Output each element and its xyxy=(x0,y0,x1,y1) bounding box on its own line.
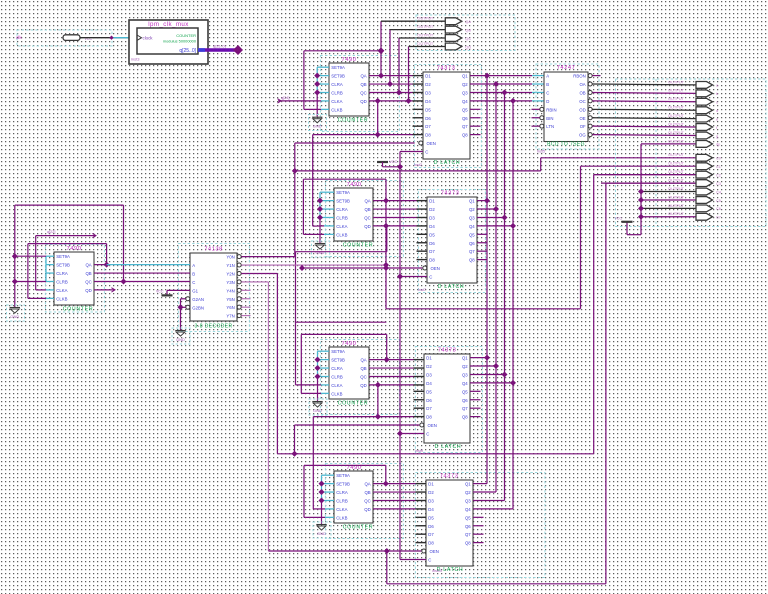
wire QB2-D2 xyxy=(373,208,417,210)
node riser-QA junction xyxy=(378,47,385,54)
svg-text:Y5N: Y5N xyxy=(226,297,234,302)
svg-text:CLKB: CLKB xyxy=(331,391,342,396)
svg-text:CLRB: CLRB xyxy=(56,279,68,284)
svg-text:7490: 7490 xyxy=(67,246,82,252)
svg-text:CLKA: CLKA xyxy=(331,99,342,104)
svg-text:CLRB: CLRB xyxy=(331,374,343,379)
output pin C2 xyxy=(696,171,713,178)
svg-text:inst7: inst7 xyxy=(418,288,426,292)
svg-text:QC: QC xyxy=(364,498,370,503)
svg-text:74373: 74373 xyxy=(438,347,457,353)
wire Y3N net: OEN4 + C3 xyxy=(241,281,268,283)
svg-text:CLRB: CLRB xyxy=(336,498,348,503)
svg-text:QB: QB xyxy=(364,490,370,495)
svg-text:CLRA: CLRA xyxy=(336,207,348,212)
svg-text:Q6: Q6 xyxy=(469,241,475,246)
wire clk to lpm xyxy=(80,37,129,39)
wire SET9A/CLRB to gnd U9 xyxy=(15,255,46,257)
svg-text:OUTPUT: OUTPUT xyxy=(668,138,685,143)
svg-text:QD: QD xyxy=(364,224,370,229)
svg-text:D6: D6 xyxy=(426,398,432,403)
svg-text:Q4: Q4 xyxy=(462,381,468,386)
wire QB5-B xyxy=(94,272,190,274)
svg-text:7490: 7490 xyxy=(342,57,357,63)
svg-text:inst3: inst3 xyxy=(131,57,140,62)
ground xyxy=(312,401,322,403)
svg-text:OA: OA xyxy=(579,82,585,87)
svg-text:D3: D3 xyxy=(428,498,434,503)
svg-text:Q8: Q8 xyxy=(465,541,471,546)
svg-text:RBIN: RBIN xyxy=(546,107,556,112)
svg-text:QA: QA xyxy=(364,482,370,487)
wire RBIN/BIN/LTN stubs xyxy=(532,108,540,110)
svg-text:OG: OG xyxy=(579,133,586,138)
output pin d xyxy=(696,107,713,114)
svg-text:Q1: Q1 xyxy=(465,482,471,487)
svg-text:modulus 50000000: modulus 50000000 xyxy=(163,38,197,43)
svg-text:OUTPUT: OUTPUT xyxy=(668,79,685,84)
svg-text:D2: D2 xyxy=(426,364,432,369)
svg-text:D8: D8 xyxy=(426,415,432,420)
svg-text:D5: D5 xyxy=(426,389,432,394)
svg-text:q[22]: q[22] xyxy=(47,230,55,234)
svg-text:SET9A: SET9A xyxy=(331,65,345,70)
svg-text:Q1: Q1 xyxy=(462,74,468,79)
svg-text:inst10: inst10 xyxy=(432,569,442,573)
svg-text:OB: OB xyxy=(579,90,585,95)
svg-text:OF: OF xyxy=(580,124,586,129)
svg-text:OEN: OEN xyxy=(431,266,440,271)
svg-text:D6: D6 xyxy=(425,116,431,121)
svg-text:SET9A: SET9A xyxy=(331,349,345,354)
bus wire q[25..0] xyxy=(198,48,236,52)
output pin QC xyxy=(445,35,462,42)
svg-text:Q5: Q5 xyxy=(462,389,468,394)
vcc xyxy=(162,294,173,296)
decoder U11 74247 BCD to 7seg xyxy=(536,64,599,149)
output pin e xyxy=(696,115,713,122)
svg-text:COUNTER: COUNTER xyxy=(338,117,369,123)
svg-text:D5: D5 xyxy=(428,515,434,520)
svg-text:Q7: Q7 xyxy=(469,249,475,254)
output pin C1 xyxy=(696,163,713,170)
svg-text:Q8: Q8 xyxy=(462,133,468,138)
wires OA-OG to pins a-g xyxy=(592,83,696,86)
wire QD2-D4 xyxy=(373,225,417,227)
svg-text:A: A xyxy=(192,263,195,268)
svg-text:CLKA: CLKA xyxy=(56,288,67,293)
svg-text:SET9B: SET9B xyxy=(331,358,345,363)
svg-text:inst2: inst2 xyxy=(414,163,422,167)
svg-text:D5: D5 xyxy=(429,232,435,237)
svg-text:CLKB: CLKB xyxy=(336,232,347,237)
svg-text:C1: C1 xyxy=(716,164,721,169)
wire CLKA3 feed (cascade from QD2) xyxy=(296,384,322,386)
svg-text:Q3: Q3 xyxy=(462,90,468,95)
wire trunk VA x386 xyxy=(385,179,387,309)
wire Q5-Q8 stubs xyxy=(470,108,481,110)
svg-text:CLKB: CLKB xyxy=(56,296,67,301)
output pin dp xyxy=(696,141,713,148)
svg-text:COUNTER: COUNTER xyxy=(63,306,94,312)
svg-text:Q5: Q5 xyxy=(469,232,475,237)
wire q[24] to CLKA U1 xyxy=(278,99,282,103)
svg-text:OUTPUT: OUTPUT xyxy=(668,130,685,135)
vcc to G1 xyxy=(167,289,190,291)
svg-text:C4: C4 xyxy=(716,189,722,194)
svg-text:CLKA: CLKA xyxy=(336,507,347,512)
svg-text:D1: D1 xyxy=(426,356,432,361)
svg-text:q[25..0]: q[25..0] xyxy=(179,48,196,54)
svg-text:Q8: Q8 xyxy=(462,415,468,420)
svg-text:D3: D3 xyxy=(426,372,432,377)
wire chain CLKB-QA U9 xyxy=(28,297,46,299)
svg-text:QD: QD xyxy=(360,99,366,104)
svg-text:D LATCH: D LATCH xyxy=(435,444,462,450)
svg-text:74373: 74373 xyxy=(441,190,460,196)
wire q[22] label stub to CLKA U9 xyxy=(36,235,96,237)
svg-text:C: C xyxy=(192,280,195,285)
svg-text:OUTPUT: OUTPUT xyxy=(668,177,685,182)
svg-text:D5: D5 xyxy=(425,107,431,112)
wire set/clr bus U3 xyxy=(319,192,321,217)
svg-text:VCC: VCC xyxy=(615,217,623,221)
svg-text:QA: QA xyxy=(465,19,471,24)
svg-text:QD: QD xyxy=(465,44,471,49)
wire Y0N net: OEN1 + C0 xyxy=(241,256,294,258)
svg-text:OD: OD xyxy=(579,107,585,112)
wire RBON stub xyxy=(592,75,600,77)
svg-text:C: C xyxy=(546,90,549,95)
svg-text:C: C xyxy=(429,274,432,279)
svg-text:BCD TO 7SEG: BCD TO 7SEG xyxy=(547,142,585,148)
output pin f xyxy=(696,124,713,131)
svg-text:Q3: Q3 xyxy=(469,215,475,220)
wire cascade QD3 to D8/CLKA4 xyxy=(377,385,379,417)
svg-text:G1: G1 xyxy=(192,288,198,293)
svg-text:OUTPUT: OUTPUT xyxy=(668,186,685,191)
svg-text:SET9A: SET9A xyxy=(56,254,70,259)
latch U6 74373 xyxy=(415,347,482,453)
node bus end xyxy=(233,45,243,55)
wire set/clr stubs U9 xyxy=(46,255,54,257)
svg-text:QD: QD xyxy=(364,507,370,512)
counter U1 7490 xyxy=(320,56,399,132)
svg-text:clk: clk xyxy=(16,35,22,40)
svg-text:OUTPUT: OUTPUT xyxy=(668,152,685,157)
lpm_clk_mux block U0 xyxy=(129,20,208,64)
svg-text:QB: QB xyxy=(360,82,366,87)
svg-text:C0: C0 xyxy=(716,156,722,161)
wire Y2N net: OEN3 + C2 xyxy=(241,272,277,274)
svg-text:d: d xyxy=(716,108,718,113)
svg-text:QB: QB xyxy=(364,207,370,212)
svg-text:Y7N: Y7N xyxy=(226,314,234,319)
wire upper loop to QC junction xyxy=(15,204,124,206)
svg-text:D7: D7 xyxy=(426,406,432,411)
svg-text:clock: clock xyxy=(143,36,154,41)
svg-text:OUTPUT: OUTPUT xyxy=(668,121,685,126)
wire QB1-D2 xyxy=(369,83,413,85)
svg-text:D7: D7 xyxy=(425,124,431,129)
svg-text:D2: D2 xyxy=(428,490,434,495)
svg-text:G2AN: G2AN xyxy=(192,297,204,302)
wire D5-D7 stubs U2 xyxy=(413,108,424,110)
svg-text:D2: D2 xyxy=(425,82,431,87)
wire QC5-C xyxy=(94,280,190,282)
wire G2AN/G2BN to gnd xyxy=(181,298,186,300)
svg-text:OEN: OEN xyxy=(430,549,439,554)
svg-text:BIN: BIN xyxy=(546,116,553,121)
svg-text:74247: 74247 xyxy=(557,65,576,71)
counter U7 7490 xyxy=(325,464,403,539)
svg-text:OUTPUT: OUTPUT xyxy=(668,105,685,110)
ground xyxy=(315,243,325,245)
svg-text:Q3: Q3 xyxy=(462,372,468,377)
svg-text:Q4: Q4 xyxy=(469,224,475,229)
svg-text:LTN: LTN xyxy=(546,124,554,129)
wire chain CLKB-QA U1 xyxy=(304,108,321,110)
wire CLKA4 feed xyxy=(313,508,325,510)
svg-text:Q2: Q2 xyxy=(469,207,475,212)
svg-text:CLRA: CLRA xyxy=(56,271,68,276)
svg-text:D LATCH: D LATCH xyxy=(438,284,465,290)
svg-text:D1: D1 xyxy=(429,199,435,204)
svg-text:7490: 7490 xyxy=(342,341,357,347)
svg-text:D8: D8 xyxy=(429,258,435,263)
svg-text:QC: QC xyxy=(465,36,471,41)
latch U2 74373 xyxy=(414,65,481,168)
svg-text:D2: D2 xyxy=(429,207,435,212)
svg-text:Q6: Q6 xyxy=(462,398,468,403)
ground xyxy=(312,116,322,118)
wire Y4N-Y7N stubs xyxy=(241,289,250,291)
svg-text:CLRA: CLRA xyxy=(331,366,343,371)
svg-text:COUNTER: COUNTER xyxy=(343,524,374,530)
svg-text:GND: GND xyxy=(176,337,185,342)
svg-text:inst5: inst5 xyxy=(537,150,545,154)
svg-text:SET9A: SET9A xyxy=(336,473,350,478)
output pin QD xyxy=(445,43,462,50)
svg-text:e: e xyxy=(716,116,718,121)
output pin c xyxy=(696,98,713,105)
svg-text:OEN: OEN xyxy=(427,141,436,146)
wire Q bus trunks xyxy=(470,75,532,77)
ground xyxy=(316,524,326,526)
svg-text:Q4: Q4 xyxy=(462,99,468,104)
svg-text:QC: QC xyxy=(85,279,91,284)
svg-text:Y3N: Y3N xyxy=(226,280,234,285)
output pin QA xyxy=(445,18,462,25)
svg-text:D: D xyxy=(546,99,549,104)
svg-text:QC: QC xyxy=(360,374,366,379)
svg-text:C: C xyxy=(425,149,428,154)
svg-text:D8: D8 xyxy=(425,133,431,138)
svg-text:C: C xyxy=(426,431,429,436)
svg-text:Q7: Q7 xyxy=(462,406,468,411)
svg-text:CLKA: CLKA xyxy=(331,383,342,388)
svg-text:Q7: Q7 xyxy=(465,532,471,537)
wire QA1-D1 xyxy=(369,75,413,77)
svg-text:Y0N: Y0N xyxy=(226,255,234,260)
svg-text:74373: 74373 xyxy=(437,65,456,71)
svg-text:OUTPUT: OUTPUT xyxy=(668,161,685,166)
svg-text:D4: D4 xyxy=(429,224,435,229)
svg-text:GND: GND xyxy=(313,408,322,413)
wire chain CLKB-QA U7 xyxy=(304,516,325,518)
svg-text:D4: D4 xyxy=(426,381,432,386)
wire cascade QD1 to D8/CLKA2 xyxy=(377,101,379,135)
wire QD5 stub with arrow xyxy=(94,289,115,291)
wire QC4-D3 xyxy=(373,499,416,501)
svg-text:B: B xyxy=(192,272,195,277)
svg-text:74373: 74373 xyxy=(440,473,459,479)
svg-text:OUTPUT: OUTPUT xyxy=(668,211,685,216)
svg-text:OC: OC xyxy=(579,99,585,104)
svg-text:g: g xyxy=(716,133,718,138)
svg-text:QA: QA xyxy=(85,263,91,268)
svg-text:D3: D3 xyxy=(425,90,431,95)
wire QC3-D3 xyxy=(369,375,414,377)
svg-text:RBON: RBON xyxy=(573,74,585,79)
wire QC1-D3 xyxy=(369,91,413,93)
svg-text:OUTPUT: OUTPUT xyxy=(668,203,685,208)
svg-text:C7: C7 xyxy=(716,215,721,220)
svg-text:QA: QA xyxy=(364,199,370,204)
svg-text:D1: D1 xyxy=(425,74,431,79)
svg-text:C6: C6 xyxy=(716,206,721,211)
wire Y1N net: OEN2 + C1 xyxy=(241,264,386,266)
wire C trunk (latch clock) xyxy=(399,151,401,559)
output pin C3 xyxy=(696,180,713,187)
wire QD1-D4 xyxy=(369,100,413,102)
svg-text:SET9B: SET9B xyxy=(336,482,350,487)
svg-text:COUNTER: COUNTER xyxy=(338,400,369,406)
ground xyxy=(10,307,20,309)
wire set/clr bus U7 xyxy=(321,475,323,500)
wire QA5-A xyxy=(94,264,107,266)
wire set/clr bus U1 xyxy=(316,67,318,92)
svg-text:QA: QA xyxy=(360,358,366,363)
svg-text:Q2: Q2 xyxy=(465,490,471,495)
svg-text:QC: QC xyxy=(364,215,370,220)
svg-text:74138: 74138 xyxy=(204,246,223,252)
wire D5-D7 stubs U6 xyxy=(414,390,425,392)
svg-text:b: b xyxy=(716,91,718,96)
svg-text:OUTPUT: OUTPUT xyxy=(668,113,685,118)
vcc xyxy=(622,221,633,223)
svg-text:c: c xyxy=(716,100,718,105)
svg-text:D8: D8 xyxy=(428,541,434,546)
svg-text:SET9B: SET9B xyxy=(331,74,345,79)
svg-text:GND: GND xyxy=(313,124,322,129)
svg-text:dp: dp xyxy=(716,142,720,147)
output pin b xyxy=(696,90,713,97)
svg-text:QD: QD xyxy=(85,288,91,293)
svg-text:SET9B: SET9B xyxy=(56,263,70,268)
vcc xyxy=(377,161,388,163)
input pin clk xyxy=(17,30,112,46)
svg-text:D1: D1 xyxy=(428,482,434,487)
svg-text:GND: GND xyxy=(10,314,19,319)
svg-text:OUTPUT: OUTPUT xyxy=(417,41,434,46)
counter U5 7490 xyxy=(320,340,399,415)
latch U4 74373 xyxy=(418,190,485,293)
wire QD4-D4 xyxy=(373,508,416,510)
svg-text:D4: D4 xyxy=(428,507,434,512)
ground xyxy=(175,330,185,332)
svg-text:C: C xyxy=(428,557,431,562)
svg-text:QB: QB xyxy=(360,366,366,371)
svg-text:CLRB: CLRB xyxy=(336,215,348,220)
svg-text:CLKA: CLKA xyxy=(336,224,347,229)
output pin C0 xyxy=(696,154,713,161)
svg-text:Y1N: Y1N xyxy=(226,263,234,268)
svg-text:OUTPUT: OUTPUT xyxy=(417,32,434,37)
svg-text:Q5: Q5 xyxy=(465,515,471,520)
wire risers to QA..QD pins xyxy=(380,21,382,75)
svg-text:q[25..0]: q[25..0] xyxy=(213,45,226,49)
svg-text:OUTPUT: OUTPUT xyxy=(668,88,685,93)
output pin g xyxy=(696,132,713,139)
svg-text:VCC: VCC xyxy=(156,290,164,294)
wire chain CLKB-QA U5 xyxy=(301,392,321,394)
svg-text:D3: D3 xyxy=(429,215,435,220)
svg-text:CLRB: CLRB xyxy=(331,90,343,95)
svg-text:COUNTER: COUNTER xyxy=(343,242,374,248)
svg-text:G2BN: G2BN xyxy=(192,305,204,310)
svg-text:Q5: Q5 xyxy=(462,107,468,112)
svg-text:Q6: Q6 xyxy=(462,116,468,121)
svg-text:OUTPUT: OUTPUT xyxy=(668,194,685,199)
wire QB3-D2 xyxy=(369,367,414,369)
svg-text:CLRA: CLRA xyxy=(336,490,348,495)
wires C0-C3 east ends xyxy=(594,174,696,176)
svg-text:OUTPUT: OUTPUT xyxy=(417,24,434,29)
svg-text:OUTPUT: OUTPUT xyxy=(417,16,434,21)
output pin C7 xyxy=(696,213,713,220)
svg-text:D7: D7 xyxy=(429,249,435,254)
svg-text:Q6: Q6 xyxy=(465,524,471,529)
svg-text:D6: D6 xyxy=(428,524,434,529)
svg-text:CLKB: CLKB xyxy=(336,515,347,520)
svg-text:lpm_clk_mux: lpm_clk_mux xyxy=(148,21,189,28)
wire QA3-D1 xyxy=(369,359,414,361)
svg-text:Y6N: Y6N xyxy=(226,305,234,310)
output pin C4 xyxy=(696,188,713,195)
svg-text:C3: C3 xyxy=(716,181,721,186)
svg-text:Q1: Q1 xyxy=(469,199,475,204)
svg-text:Q3: Q3 xyxy=(465,498,471,503)
svg-text:GND: GND xyxy=(316,250,325,255)
svg-text:Q8: Q8 xyxy=(469,258,475,263)
svg-text:A: A xyxy=(546,74,549,79)
svg-text:Q4: Q4 xyxy=(465,507,471,512)
svg-text:Y2N: Y2N xyxy=(226,271,234,276)
svg-text:D7: D7 xyxy=(428,532,434,537)
svg-text:D4: D4 xyxy=(425,99,431,104)
counter U3 7490 xyxy=(325,181,403,257)
svg-text:Q2: Q2 xyxy=(462,82,468,87)
output pin column dashed box xyxy=(616,79,767,227)
wire D5-D8 stubs U8 xyxy=(416,516,427,518)
svg-text:q[24]: q[24] xyxy=(281,96,289,100)
svg-text:QC: QC xyxy=(360,90,366,95)
wire CLKA2 feed xyxy=(313,225,324,227)
output pin C6 xyxy=(696,205,713,212)
svg-text:C2: C2 xyxy=(716,172,721,177)
svg-text:Q1: Q1 xyxy=(462,356,468,361)
